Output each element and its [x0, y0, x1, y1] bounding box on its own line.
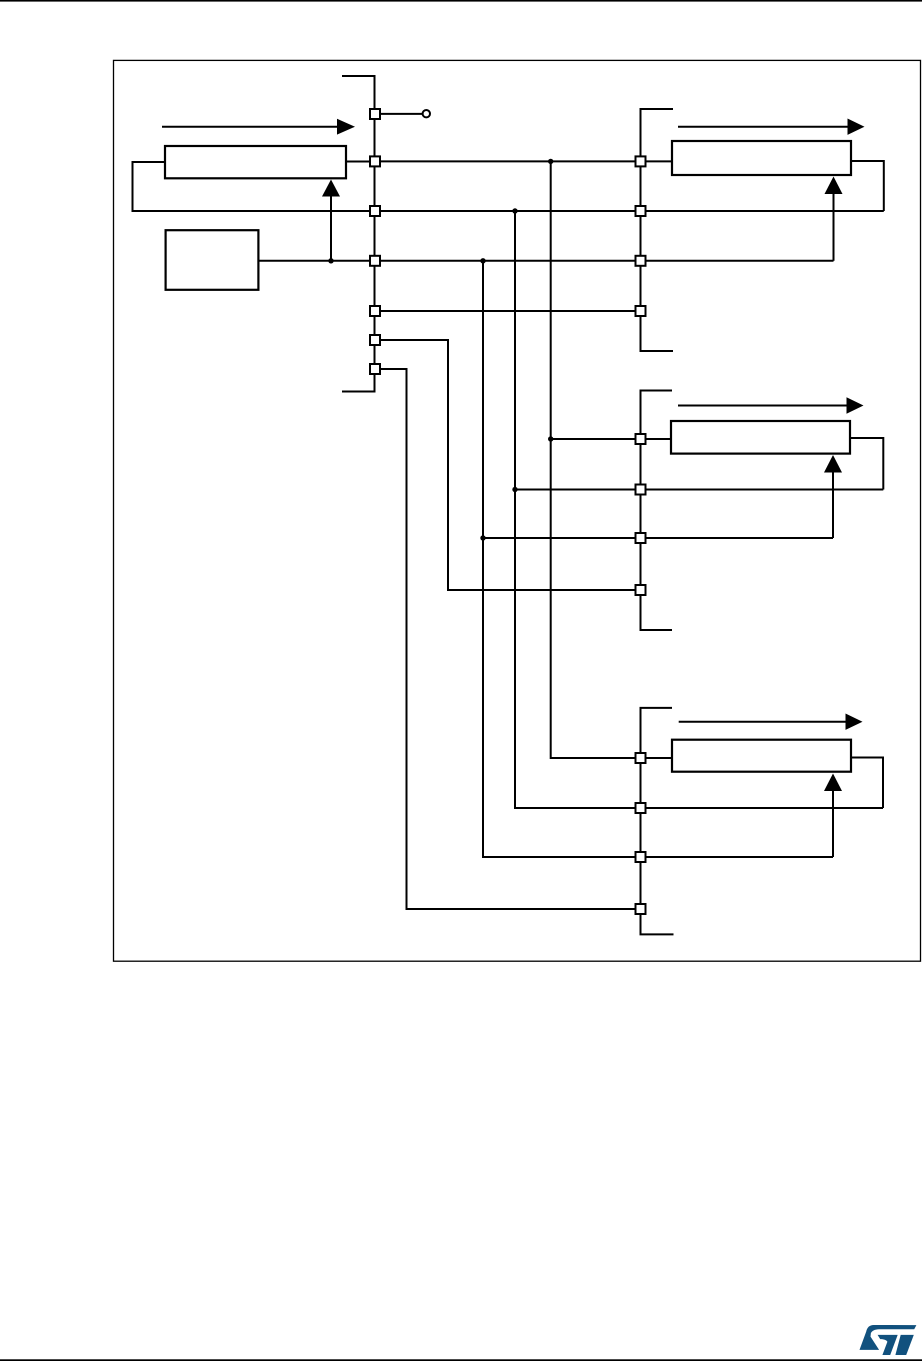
wire: slave3 feedback loop	[851, 758, 883, 809]
figure frame	[114, 60, 921, 961]
arrow: up arrow into slave2 box	[832, 473, 834, 539]
wire: net ITR line 1	[381, 160, 635, 162]
arrow: slave2 clock arrow	[678, 405, 847, 407]
port squares: slave2 bus	[636, 434, 646, 444]
wire: stub to terminal circle	[381, 113, 422, 115]
junction on clock net x483	[480, 258, 485, 263]
junction on drop x483	[480, 535, 485, 540]
port squares: slave3 bus	[636, 753, 646, 763]
wire: branch to slave2 port2	[515, 489, 883, 491]
block: master timer TIM1 box	[165, 146, 346, 178]
wire: net TRGO1 from master box to bus	[346, 161, 369, 163]
junction on clock net	[328, 258, 333, 263]
port squares: master bus	[370, 109, 380, 119]
wire: feedback loop of master box	[133, 162, 370, 211]
top page rule	[0, 0, 922, 2]
wire: slave1 port1 to box	[647, 160, 673, 162]
wire: branch to slave2 port1	[551, 438, 671, 440]
arrow: up arrow into master box	[330, 196, 332, 261]
arrow: up arrow into slave3 box	[832, 791, 834, 857]
wire: net from master port6 down to slave2	[381, 340, 635, 590]
junction on line1	[548, 159, 553, 164]
arrow: master clock input arrow	[162, 126, 338, 128]
wire: slave2 bus	[641, 391, 673, 631]
junction on line2	[512, 208, 517, 213]
wire: net line2 across	[381, 210, 884, 212]
block: clock source box	[166, 230, 259, 290]
wire: net line ITR across	[381, 310, 635, 312]
bottom page rule	[0, 1359, 922, 1361]
arrow: slave1 clock arrow	[678, 126, 848, 128]
wire: slave2 feedback loop	[850, 438, 883, 490]
wire: drop line x550	[551, 161, 672, 758]
junction on drop x515	[512, 487, 517, 492]
block: slave timer TIM4 box	[672, 740, 851, 772]
arrow: up arrow into slave1 box	[833, 194, 835, 261]
block: slave timer TIM3 box	[671, 421, 850, 454]
node: terminal circle	[423, 110, 430, 117]
wire: drop line x515	[515, 211, 883, 808]
arrow: slave3 clock arrow	[679, 721, 846, 723]
wire: drop line x483	[483, 261, 833, 857]
wire: net from master port7 down to slave3	[381, 369, 635, 909]
block: slave timer TIM2 box	[672, 141, 851, 175]
wire: slave3 bus	[641, 708, 674, 935]
wire: branch to slave2 port3	[483, 537, 833, 539]
wire: slave1 feedback loop	[851, 161, 884, 211]
ST logo	[860, 1325, 917, 1355]
wire: master bus top stub	[342, 76, 375, 392]
wire: slave1 bus	[641, 109, 674, 351]
wire: net from clock box across	[258, 260, 833, 262]
port squares: slave1 bus	[636, 156, 646, 166]
junction on drop x550	[548, 436, 553, 441]
